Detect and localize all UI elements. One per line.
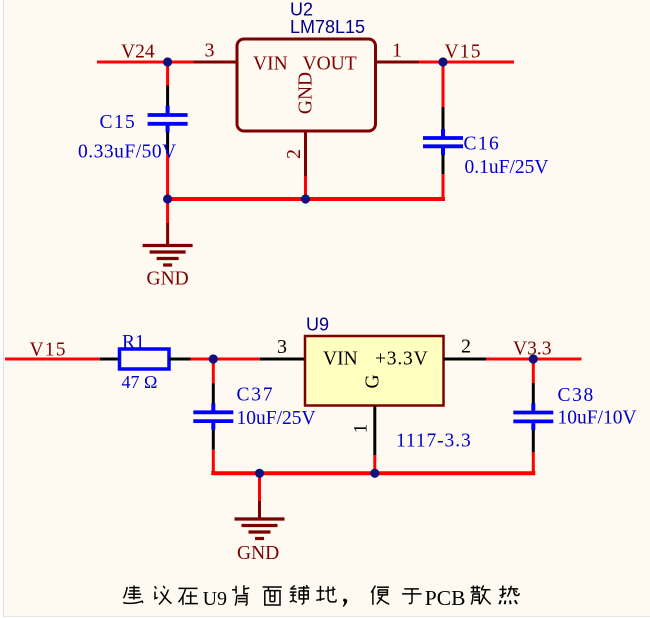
junction dot rail-C15: [163, 194, 172, 203]
svg-text:U9: U9: [203, 588, 227, 610]
svg-text:V3.3: V3.3: [513, 339, 551, 360]
fullwidth comma: [343, 599, 348, 607]
svg-text:G: G: [363, 374, 384, 388]
hanzi bei 背: [232, 585, 249, 605]
resistor R1 body: [120, 349, 170, 369]
hanzi yu 于: [402, 589, 421, 604]
capacitor C15 pin upper black: [166, 86, 169, 107]
svg-text:1117-3.3: 1117-3.3: [396, 431, 472, 452]
svg-text:GND: GND: [147, 269, 189, 290]
svg-text:VIN: VIN: [323, 349, 358, 370]
svg-text:GND: GND: [237, 543, 279, 564]
capacitor C38 pin lower black: [532, 430, 535, 452]
svg-text:47 Ω: 47 Ω: [122, 372, 158, 392]
wire pin1 to rail: [373, 455, 376, 473]
pin 2 of U2: [304, 131, 307, 176]
wire C16 stem red upper: [442, 62, 445, 107]
U9 box: [305, 336, 444, 406]
capacitor C15 plates: [148, 106, 188, 133]
pin 3 of U9: [260, 358, 305, 361]
junction dot rail-pin2: [301, 194, 310, 203]
wire C16 stem red lower: [442, 174, 445, 199]
svg-text:C15: C15: [100, 112, 137, 133]
capacitor C16 pin upper black: [442, 107, 445, 129]
wire ground rail bottom circuit: [213, 471, 533, 473]
wire GND stem red: [166, 199, 169, 223]
svg-text:VIN: VIN: [253, 54, 288, 75]
wire pin2 to rail: [304, 176, 307, 199]
svg-text:0.33uF/50V: 0.33uF/50V: [78, 142, 177, 163]
svg-text:VOUT: VOUT: [303, 54, 357, 75]
wire ground rail top circuit: [168, 197, 443, 199]
wire red after junction to pin3: [194, 61, 198, 64]
pin 3 of U2: [194, 61, 238, 64]
resistor R1 pin left: [100, 358, 120, 361]
svg-text:LM78L15: LM78L15: [290, 17, 365, 37]
U2 box: [237, 39, 376, 131]
resistor R1 pin right: [169, 358, 191, 361]
hanzi bian 便: [371, 586, 389, 605]
hanzi zai 在: [179, 588, 198, 605]
wire net V24 horizontal: [97, 61, 194, 64]
pin 2 of U9: [444, 358, 487, 361]
ground symbol GND top: [143, 223, 193, 265]
svg-text:R1: R1: [122, 332, 145, 353]
wire red pin1 to junction V15: [419, 61, 443, 64]
svg-text:GND: GND: [296, 72, 317, 114]
svg-text:2: 2: [461, 336, 471, 358]
wire pin2 to V3.3: [486, 358, 582, 361]
ground symbol GND bottom: [235, 501, 285, 539]
wire GND2 stem red: [258, 473, 261, 501]
pin 1 of U2: [376, 61, 420, 64]
svg-text:2: 2: [283, 149, 305, 159]
junction dot V3.3: [529, 354, 538, 363]
hanzi mian 面: [263, 587, 282, 605]
wire C15 stem red upper: [166, 62, 169, 86]
svg-text:10uF/10V: 10uF/10V: [558, 408, 637, 429]
svg-text:U9: U9: [306, 315, 329, 335]
svg-text:1: 1: [392, 40, 402, 62]
hanzi yi 议: [155, 586, 172, 605]
wire R1 to junction: [191, 358, 261, 361]
svg-text:3: 3: [205, 40, 215, 62]
junction dot R1-C37: [209, 354, 218, 363]
hanzi san 散: [471, 585, 491, 604]
capacitor C16 pin lower black: [442, 155, 445, 174]
svg-text:V24: V24: [121, 42, 155, 63]
capacitor C16 plates: [423, 129, 463, 155]
wire C38 stem red upper: [532, 359, 535, 383]
note text: 建议在U9背面铺地，便于PCB散热: [123, 585, 519, 607]
capacitor C37 pin lower black: [212, 430, 215, 450]
capacitor C37 plates: [193, 403, 233, 430]
svg-text:1: 1: [351, 424, 372, 434]
wire net V15 to right: [443, 61, 514, 64]
hanzi pu 铺: [290, 585, 310, 604]
pin 1 of U9: [373, 406, 376, 455]
wire C15 stem red lower: [166, 154, 169, 200]
wire C38 stem red lower: [532, 452, 535, 473]
capacitor C38 pin upper black: [532, 383, 535, 404]
junction dot V24: [163, 57, 172, 66]
wire C37 stem red upper: [212, 359, 215, 384]
svg-text:C38: C38: [558, 385, 595, 406]
wire C37 stem red lower: [212, 450, 215, 474]
capacitor C15 pin lower black: [166, 132, 169, 154]
svg-text:C37: C37: [237, 385, 275, 406]
hanzi jian 建: [123, 585, 143, 603]
svg-text:3: 3: [277, 336, 287, 358]
capacitor C37 pin upper black: [212, 384, 215, 405]
hanzi re 热: [499, 586, 519, 605]
junction dot V15: [438, 57, 447, 66]
junction dot rail2-GND: [255, 469, 264, 478]
svg-text:V15: V15: [30, 340, 67, 361]
hanzi di 地: [316, 586, 336, 602]
svg-text:PCB: PCB: [425, 586, 466, 610]
capacitor C38 plates: [513, 403, 553, 430]
wire net V15 left: [5, 358, 100, 361]
svg-text:0.1uF/25V: 0.1uF/25V: [465, 157, 549, 178]
svg-text:10uF/25V: 10uF/25V: [237, 408, 316, 429]
svg-text:C16: C16: [464, 134, 501, 155]
svg-text:V15: V15: [445, 42, 482, 63]
junction dot rail2-pin1: [370, 469, 379, 478]
svg-text:+3.3V: +3.3V: [375, 349, 428, 370]
